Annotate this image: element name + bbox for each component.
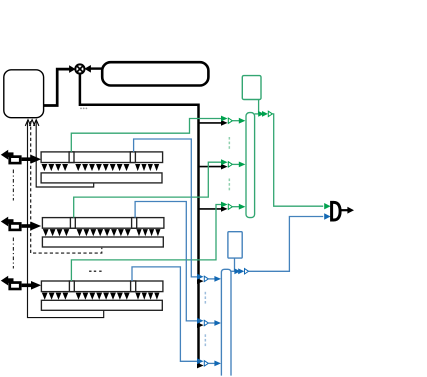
spreader cell 1 row3 [69,281,74,292]
wire junction to green bar y=206.7 [232,206,239,208]
I/O pad square row3 [8,281,21,290]
arrowhead into blue bar y=278.9 [214,276,221,282]
wire scan return row2 (dashed) [31,121,102,253]
wire junction to green bar y=120.7 [232,120,239,122]
ellipsis blue inputs 2 [205,334,207,337]
scan cells bottom register row1 [41,173,162,183]
blue MISR bar U4 [221,269,231,375]
arrowhead black stub [221,206,228,212]
ellipsis green inputs 2 [229,179,231,182]
wire blue seed box down [234,258,236,271]
wire scan-in thick arrow row3 [22,284,32,288]
arrowhead into green bar y=120.7 [239,118,246,124]
ellipsis green inputs 1 [229,137,231,140]
wire junction to blue bar y=278.9 [208,278,214,280]
wire seed box down [258,100,260,114]
arrowhead black stub [197,322,204,328]
arrowhead black stub [221,164,228,170]
ellipsis blue inputs 1 [205,292,207,295]
spreader cell 2 row3 [131,281,136,292]
scan cells top register row1 [41,152,163,163]
blue input arrowhead y=278.9 [197,274,204,280]
load arrows group C row1 [135,164,159,171]
spreader cell 1 row1 [69,152,74,163]
arrowhead into XOR (left input) [69,65,76,73]
wire blue bar output [231,270,235,272]
wire blue output to OR gate [249,217,324,272]
spreader cell 2 row1 [130,152,135,163]
arrowhead black stub [197,278,204,284]
spreader cell 1 row2 [70,218,75,229]
load arrows group B row2 [77,229,131,236]
up-arrows into MISR (scan return) [25,120,30,126]
arrowhead into XOR (right input) [84,65,91,73]
ellipsis more taps (top) [80,108,82,110]
open triangle blue output [245,269,249,274]
wire blue tap row1 [134,139,198,277]
junction open triangle green y=206.7 [228,204,232,209]
I/O pad left arrow row3 [1,276,8,286]
wire blue tap row3 [132,267,197,361]
arrowhead black stub [197,363,204,369]
blue input arrowhead y=323.0 [197,318,204,324]
wire bus stub to MUX input y=166.6 [199,166,222,168]
wire junction to blue bar y=323.0 [208,322,214,324]
I/O pad square row2 [8,222,21,231]
wire green tap row2 [74,162,222,217]
scan cells bottom register row3 [41,300,162,310]
open triangle green output [268,111,272,116]
wire junction to green bar y=164.4 [232,163,239,165]
arrowhead into green bar y=206.7 [239,204,246,210]
arrowhead black stub [221,120,228,126]
scan cells bottom register row2 [42,237,163,247]
blue input arrowhead y=363.4 [197,358,204,364]
green input arrowhead y=206.7 [221,202,228,208]
scan cells top register row3 [41,281,162,292]
wire blue tap row2 [135,202,197,321]
green seed register box [242,76,261,100]
OR gate U5 [332,202,341,220]
junction open triangle green y=120.7 [228,118,232,123]
wire PRPG box to XOR [90,67,102,69]
wire scan return row3 (solid) [28,121,104,318]
load arrows group A row2 [43,229,70,236]
wire XOR output bus (down, right, down to bottom) [80,73,200,365]
MISR block U1 [4,70,44,118]
junction open triangle green y=164.4 [228,162,232,167]
blue seed register box [228,232,242,258]
double arrowheads green output [258,111,264,117]
wire bus stub to MUX input y=122.9 [199,122,222,124]
XOR gate X1 (crossed circle) [75,64,84,73]
scan cells top register row2 [42,218,163,229]
wire junction to blue bar y=363.4 [208,362,214,364]
wire bus stub to blue MUX input y=281.1 [198,280,200,282]
dash-dot repeat line segment 2 [12,238,14,269]
wire green output to OR gate [272,114,323,206]
wire green tap row1 [71,119,221,152]
double arrowheads blue output [234,268,240,274]
wire MISR output to XOR [44,69,71,105]
ellipsis more chains (between rows) [89,271,91,273]
I/O pad left arrow row2 [1,217,8,227]
junction open triangle blue y=363.4 [204,361,208,366]
load arrows group B row3 [76,293,130,300]
arrowhead green into OR gate [324,203,330,209]
load arrows group C row3 [135,293,159,300]
green MISR bar U3 [246,113,255,218]
I/O pad left arrow row1 [1,150,8,160]
PRPG box U2 [102,62,208,85]
load arrows group C row2 [136,229,160,236]
wire green tap row3 [71,205,221,282]
wire scan return row1 (solid) [36,121,93,187]
load arrows group B row1 [75,164,129,171]
load arrows group A row3 [42,293,69,300]
wire scan-in thick arrow row2 [22,224,32,228]
wire scan-in thick arrow row1 [22,157,32,161]
wire bus stub to blue MUX input y=365.5 [198,365,200,367]
wire OR gate output [342,209,348,211]
arrowhead into blue bar y=363.4 [214,361,221,367]
wire green bar output [255,113,259,115]
I/O pad square row1 [8,155,21,164]
arrowhead into green bar y=164.4 [239,162,246,168]
arrowhead into blue bar y=323.0 [214,320,221,326]
arrowhead blue into OR gate [324,213,330,219]
green input arrowhead y=164.4 [221,159,228,165]
wire bus stub to MUX input y=208.9 [199,208,222,210]
arrowhead output [347,207,354,214]
load arrows group A row1 [42,164,69,171]
junction open triangle blue y=278.9 [204,276,208,281]
dash-dot repeat line segment 1 [12,170,14,201]
green input arrowhead y=120.7 [221,116,228,122]
wire bus stub to blue MUX input y=325.1 [198,324,200,326]
junction open triangle blue y=323.0 [204,320,208,325]
spreader cell 2 row2 [132,218,137,229]
